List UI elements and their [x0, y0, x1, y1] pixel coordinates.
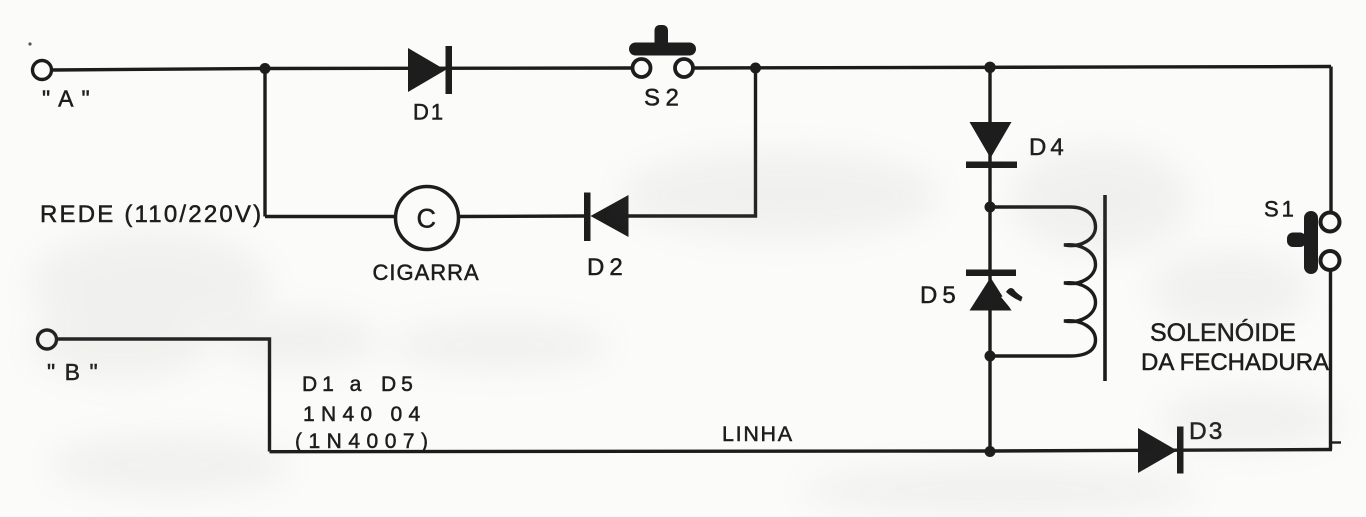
- scan noise patches (decorative): [30, 145, 1340, 515]
- svg-text:LINHA: LINHA: [722, 422, 794, 446]
- svg-text:S2: S2: [644, 85, 684, 112]
- svg-text:(1N4007): (1N4007): [295, 430, 435, 453]
- svg-text:D1: D1: [413, 100, 445, 125]
- speck artifact top left: [28, 42, 31, 45]
- svg-text:D5: D5: [381, 373, 418, 396]
- terminal A: [33, 61, 52, 80]
- wire cigarra to D2: [459, 214, 585, 218]
- svg-text:1N40 04: 1N40 04: [303, 403, 427, 426]
- wire middle branch vertical at 265: [263, 68, 266, 217]
- diode D5: [920, 270, 1023, 311]
- wire top left: A to S2: [52, 68, 632, 70]
- svg-text:C: C: [417, 204, 437, 234]
- wire middle: 265 to cigarra: [265, 215, 396, 218]
- pushbutton S2: [629, 25, 696, 112]
- terminal B: [38, 330, 57, 349]
- buzzer C (cigarra): [373, 187, 480, 286]
- stub artifact at bottom right corner: [1332, 441, 1341, 443]
- svg-text:CIGARRA: CIGARRA: [373, 260, 480, 285]
- wire bottom LINHA: [270, 450, 1333, 452]
- node junction at 755,68: [750, 63, 761, 74]
- svg-text:D1 a: D1 a: [302, 373, 366, 396]
- diode D2: [584, 193, 629, 282]
- diode D3: [1138, 418, 1224, 474]
- wire D2 to riser: [629, 68, 756, 216]
- wire B to bottom line: [56, 339, 270, 452]
- svg-text:REDE (110/220V): REDE (110/220V): [40, 201, 263, 228]
- wire right drop to S1: [1329, 67, 1332, 213]
- solenoid core bar: [1103, 195, 1107, 381]
- diode D1: [408, 46, 452, 125]
- wire S1 to bottom right corner: [1329, 270, 1332, 450]
- svg-text:D5: D5: [920, 282, 961, 309]
- svg-text:"A": "A": [42, 86, 98, 112]
- solenoid coil: [990, 207, 1096, 356]
- node junction at 990,452: [985, 446, 996, 457]
- node junction at 990,356: [985, 351, 996, 362]
- svg-text:S1: S1: [1264, 197, 1297, 222]
- node junction at 265,68: [260, 63, 271, 74]
- svg-text:DA FECHADURA: DA FECHADURA: [1141, 349, 1329, 376]
- pushbutton S1: [1264, 197, 1340, 275]
- svg-text:D2: D2: [587, 254, 628, 281]
- diode D4: [966, 122, 1068, 168]
- wire top right: S2 to right corner: [693, 67, 1331, 69]
- node junction at 990,68: [984, 62, 995, 73]
- wire right branch vertical at 990: [988, 68, 991, 452]
- node junction at 990,207: [985, 202, 996, 213]
